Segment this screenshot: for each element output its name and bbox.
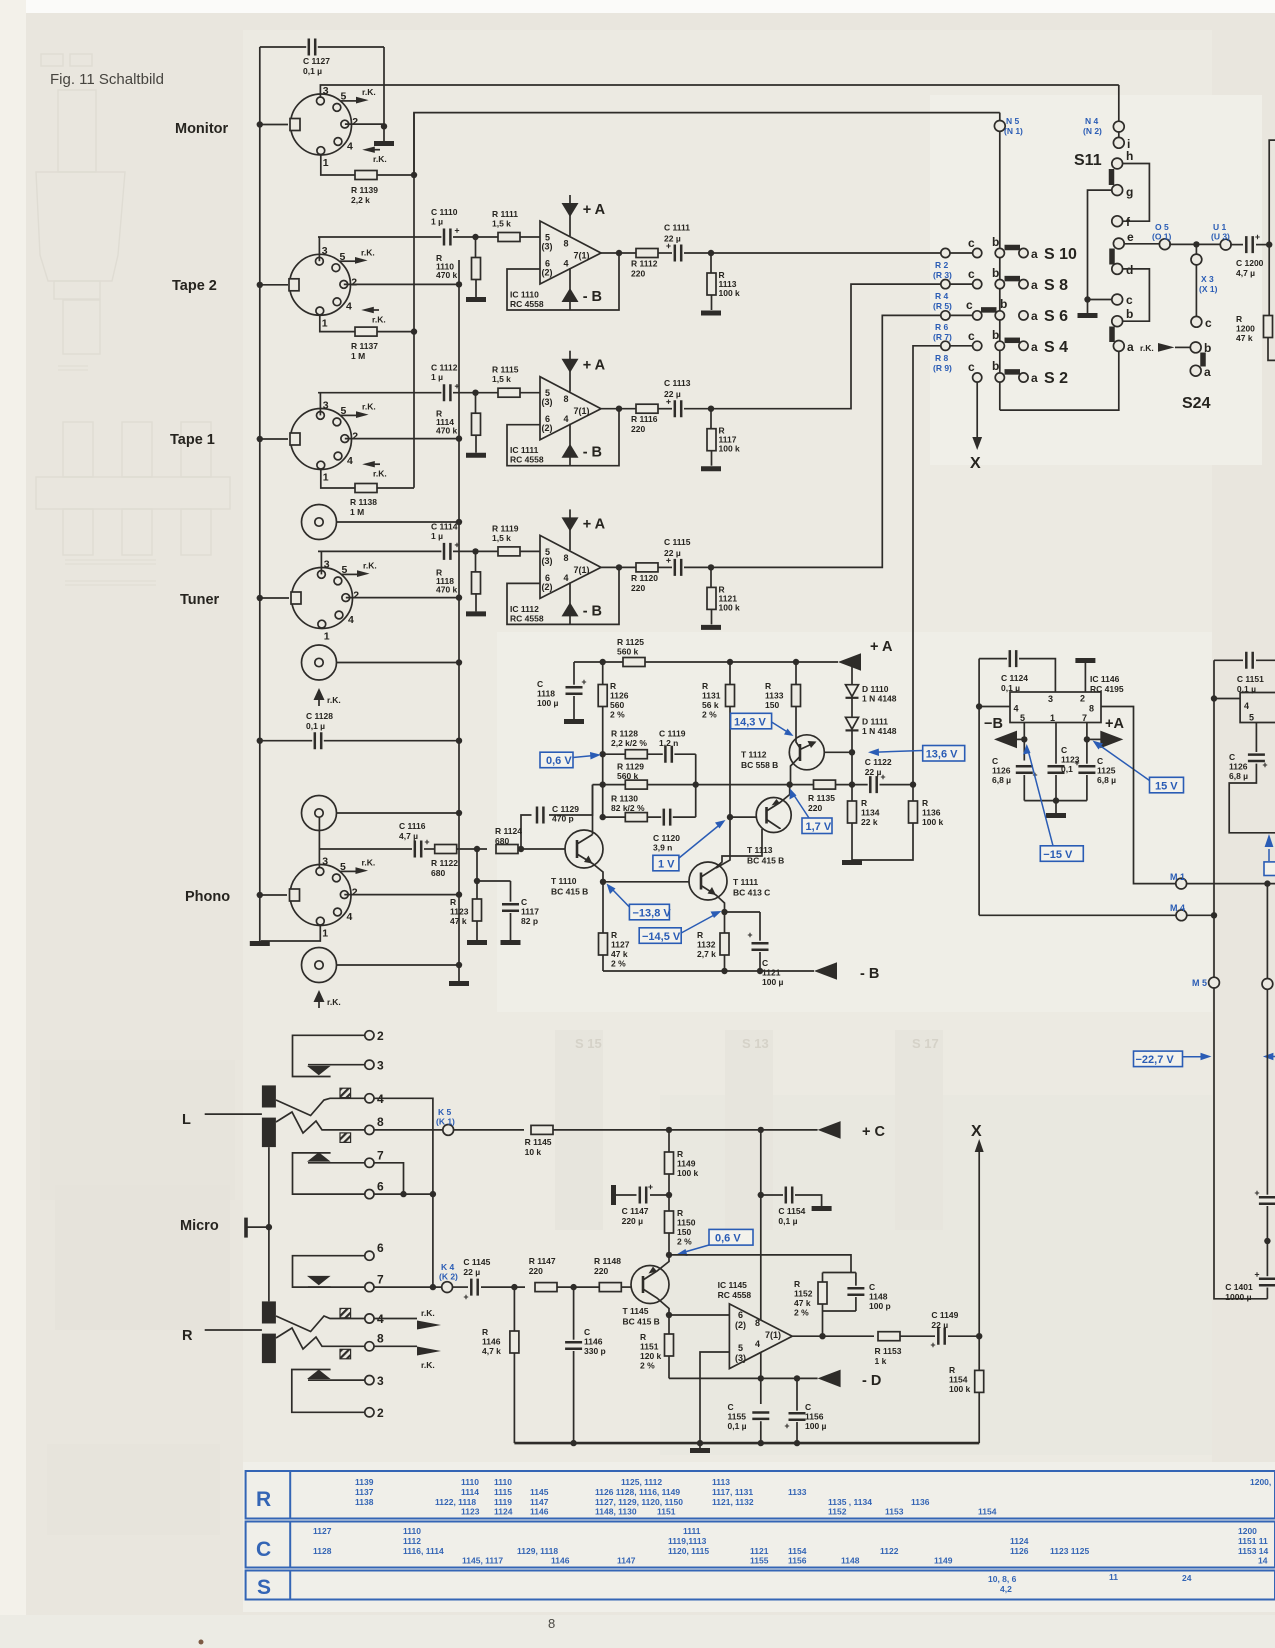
svg-text:- B: - B (583, 603, 602, 619)
-D supply line (669, 1377, 818, 1379)
jack L contact 7 with break (365, 1158, 374, 1167)
svg-text:6: 6 (377, 1180, 384, 1194)
svg-text:1156: 1156 (805, 1412, 824, 1422)
switch S24 contact a (1190, 365, 1201, 376)
op-amp IC1146 RC4195 box (1010, 692, 1101, 723)
svg-text:d: d (1126, 263, 1133, 277)
svg-text:C 1147: C 1147 (622, 1206, 649, 1216)
svg-text:1111: 1111 (683, 1526, 701, 1536)
capacitor C1151 partial circuit (1214, 659, 1243, 661)
svg-text:1 µ: 1 µ (431, 531, 443, 541)
svg-text:1119,1113: 1119,1113 (668, 1536, 707, 1546)
wire right bus top (383, 47, 385, 126)
svg-text:22 µ: 22 µ (664, 548, 681, 558)
svg-text:82 p: 82 p (521, 916, 538, 926)
svg-text:a: a (1031, 371, 1038, 385)
capacitor C1125 (1086, 723, 1088, 765)
svg-text:82 k/2 %: 82 k/2 % (611, 803, 645, 813)
svg-text:4: 4 (1244, 701, 1249, 711)
svg-text:3: 3 (377, 1374, 384, 1388)
svg-text:470 k: 470 k (436, 426, 458, 436)
mid rail vertical (760, 1130, 762, 1320)
resistor R1134 (851, 785, 853, 801)
svg-text:0,1: 0,1 (1061, 764, 1073, 774)
svg-text:1127: 1127 (611, 940, 630, 950)
svg-text:S11: S11 (1074, 152, 1102, 169)
svg-text:R 1122: R 1122 (431, 858, 458, 868)
svg-text:22 k: 22 k (861, 817, 878, 827)
svg-text:1126: 1126 (1229, 762, 1248, 772)
svg-text:1 µ: 1 µ (431, 372, 443, 382)
svg-text:R: R (182, 1328, 193, 1344)
svg-text:56 k: 56 k (702, 700, 719, 710)
svg-text:R: R (677, 1149, 683, 1159)
voltage 15 V (1150, 777, 1184, 793)
svg-text:100 µ: 100 µ (537, 698, 559, 708)
svg-text:a: a (1031, 247, 1038, 261)
svg-text:IC 1111: IC 1111 (510, 445, 539, 455)
switch S11 contact b (1112, 316, 1123, 327)
svg-text:1125, 1112: 1125, 1112 (621, 1477, 662, 1487)
svg-text:4,7 µ: 4,7 µ (399, 831, 418, 841)
jack R contact 7 with break (365, 1283, 374, 1292)
switch S11 contact c (1112, 294, 1123, 305)
switch S11 contact a (1113, 341, 1124, 352)
svg-text:1126 1128, 1116, 1149: 1126 1128, 1116, 1149 (595, 1487, 680, 1497)
svg-text:C: C (762, 958, 768, 968)
wire tape1 R1138 to bus (413, 113, 415, 488)
svg-text:g: g (1126, 185, 1133, 199)
op-amp stage Tape2 IC1110 (318, 195, 721, 313)
svg-text:r.K.: r.K. (421, 1360, 435, 1370)
svg-text:c: c (968, 329, 975, 343)
svg-text:R 1139: R 1139 (351, 185, 378, 195)
svg-text:22 µ: 22 µ (463, 1267, 480, 1277)
svg-text:b: b (1000, 297, 1007, 311)
transistor T1111 (603, 881, 690, 883)
capacitor C1123 (1055, 723, 1057, 765)
svg-text:8: 8 (377, 1332, 384, 1346)
svg-text:R 1145: R 1145 (525, 1137, 552, 1147)
switch S11 contact g (1112, 185, 1123, 196)
+C supply line (454, 1129, 524, 1131)
wire O5 to U1 (1169, 243, 1221, 245)
svg-text:Tuner: Tuner (180, 592, 220, 608)
svg-text:C: C (992, 756, 998, 766)
wire right edge from top (1269, 140, 1275, 315)
svg-text:(N 2): (N 2) (1083, 126, 1102, 136)
svg-text:4: 4 (564, 259, 569, 269)
svg-text:4: 4 (564, 414, 569, 424)
svg-text:(R 9): (R 9) (933, 363, 952, 373)
svg-text:1146: 1146 (551, 1556, 570, 1566)
wire h to f (1122, 164, 1149, 222)
svg-text:2,2 k/2 %: 2,2 k/2 % (611, 738, 647, 748)
op-amp IC1145 (729, 1304, 792, 1369)
resistor R1150 (665, 1211, 674, 1233)
voltage 1,7 V (802, 818, 832, 834)
svg-text:S 13: S 13 (742, 1036, 769, 1051)
svg-text:24: 24 (1182, 1573, 1192, 1583)
switch S24 contact c (1191, 316, 1202, 327)
svg-text:1149: 1149 (934, 1556, 953, 1566)
svg-text:S 4: S 4 (1044, 339, 1068, 356)
svg-text:1 N 4148: 1 N 4148 (862, 694, 897, 704)
svg-text:1127, 1129, 1120, 1150: 1127, 1129, 1120, 1150 (595, 1497, 683, 1507)
svg-text:1125: 1125 (1097, 766, 1116, 776)
connector Tuner DIN (260, 597, 289, 599)
svg-text:C: C (256, 1538, 271, 1561)
svg-text:8: 8 (564, 239, 569, 249)
svg-text:(2): (2) (542, 268, 553, 278)
blue arrow up right edge (1268, 849, 1270, 861)
svg-text:R 1128: R 1128 (611, 729, 638, 739)
svg-text:47 k: 47 k (794, 1298, 811, 1308)
svg-text:R 1116: R 1116 (631, 414, 658, 424)
jack L tip spring to 4 (276, 1098, 365, 1115)
svg-text:4,7 k: 4,7 k (482, 1346, 501, 1356)
svg-text:(N 1): (N 1) (1004, 126, 1023, 136)
resistor R1127 (602, 882, 604, 933)
jack R contact 6 (365, 1251, 374, 1260)
svg-text:22 µ: 22 µ (865, 767, 882, 777)
svg-text:S 15: S 15 (575, 1036, 602, 1051)
phono input: capacitor C1116 (319, 848, 412, 850)
svg-text:r.K.: r.K. (327, 997, 341, 1007)
svg-text:R: R (1236, 314, 1242, 324)
svg-text:R 1120: R 1120 (631, 573, 658, 583)
svg-text:0,1 µ: 0,1 µ (778, 1216, 797, 1226)
svg-text:S 17: S 17 (912, 1036, 939, 1051)
jack L contact 2 (365, 1031, 374, 1040)
svg-text:100 k: 100 k (719, 444, 741, 454)
svg-text:1122: 1122 (880, 1546, 899, 1556)
svg-text:1110: 1110 (461, 1477, 479, 1487)
svg-text:N 5: N 5 (1006, 116, 1020, 126)
schematic light panel (243, 30, 1212, 1462)
svg-text:(R 3): (R 3) (933, 270, 952, 280)
svg-text:T 1110: T 1110 (551, 876, 577, 886)
wire collector to feedback (669, 1255, 851, 1273)
svg-text:C 1127: C 1127 (303, 56, 330, 66)
svg-text:1133: 1133 (765, 691, 784, 701)
svg-text:3: 3 (377, 1059, 384, 1073)
svg-text:1147: 1147 (530, 1497, 549, 1507)
svg-text:(U 3): (U 3) (1211, 232, 1230, 242)
svg-text:0,1 µ: 0,1 µ (303, 66, 322, 76)
r.K. arrow below RCA (314, 688, 325, 700)
svg-text:1137: 1137 (355, 1487, 374, 1497)
sleeve bus between jacks (268, 1147, 270, 1301)
capacitor C1156 (796, 1378, 798, 1411)
svg-text:220: 220 (631, 424, 645, 434)
svg-text:C 1124: C 1124 (1001, 673, 1028, 683)
svg-text:1145, 1117: 1145, 1117 (462, 1556, 503, 1566)
svg-text:22 µ: 22 µ (931, 1320, 948, 1330)
svg-text:7: 7 (377, 1273, 384, 1287)
svg-text:C 1200: C 1200 (1236, 258, 1264, 268)
resistor R1149 (668, 1130, 670, 1152)
voltage 1 V (653, 855, 679, 871)
svg-text:T 1112: T 1112 (741, 750, 767, 760)
svg-text:220: 220 (808, 803, 822, 813)
svg-text:R: R (861, 798, 867, 808)
svg-text:1152: 1152 (828, 1507, 847, 1517)
svg-text:S: S (257, 1576, 271, 1599)
svg-text:22 µ: 22 µ (664, 234, 681, 244)
svg-text:R 8: R 8 (935, 353, 949, 363)
svg-text:C 1122: C 1122 (865, 757, 892, 767)
svg-text:1116, 1114: 1116, 1114 (403, 1546, 444, 1556)
svg-text:6,8 µ: 6,8 µ (992, 775, 1011, 785)
svg-text:r.K.: r.K. (1140, 343, 1154, 353)
svg-text:4: 4 (1014, 704, 1019, 714)
svg-text:C 1116: C 1116 (399, 821, 426, 831)
resistor R1131 on ladder to T1113 base (727, 659, 733, 665)
svg-text:R 1124: R 1124 (495, 826, 522, 836)
svg-text:1200: 1200 (1238, 1526, 1257, 1536)
svg-text:R 1125: R 1125 (617, 637, 644, 647)
svg-text:C: C (537, 679, 543, 689)
svg-text:RC 4558: RC 4558 (510, 613, 544, 623)
switch bank S8 (941, 266, 1068, 294)
svg-text:b: b (1126, 307, 1133, 321)
svg-text:c: c (1205, 316, 1212, 330)
svg-text:8: 8 (564, 394, 569, 404)
svg-text:+A: +A (1105, 716, 1124, 732)
svg-text:1126: 1126 (992, 766, 1011, 776)
svg-text:1154: 1154 (788, 1546, 807, 1556)
pin4 lead (979, 706, 1010, 708)
svg-text:K 4: K 4 (441, 1262, 455, 1272)
svg-text:R 1129: R 1129 (617, 762, 644, 772)
svg-text:Micro: Micro (180, 1218, 219, 1234)
switch bank S10 (941, 235, 1077, 263)
svg-text:+ C: + C (862, 1124, 885, 1140)
jack L contact 3 with break (365, 1060, 374, 1069)
svg-text:a: a (1031, 309, 1038, 323)
svg-text:1118: 1118 (537, 689, 555, 699)
svg-text:1114: 1114 (461, 1487, 479, 1497)
svg-text:2: 2 (377, 1029, 384, 1043)
op-amp stage Tape1 IC1111 (318, 351, 721, 469)
svg-text:C 1129: C 1129 (552, 804, 579, 814)
svg-text:1200,: 1200, (1250, 1477, 1271, 1487)
svg-text:560 k: 560 k (617, 771, 639, 781)
capacitor C1401 pair (1259, 1195, 1275, 1207)
svg-text:RC 4195: RC 4195 (1090, 684, 1124, 694)
svg-text:b: b (992, 359, 999, 373)
svg-text:1123: 1123 (450, 907, 469, 917)
resistor R1129 row / main feedback row (593, 784, 869, 786)
wire phono input from RCA (318, 818, 320, 872)
capacitor C1154 (758, 1192, 764, 1198)
svg-text:47 k: 47 k (450, 916, 467, 926)
node after R1122 (457, 848, 487, 850)
node K5 (374, 1129, 443, 1131)
diode D1110 (849, 659, 855, 665)
svg-text:1124: 1124 (494, 1507, 513, 1517)
svg-text:IC 1112: IC 1112 (510, 604, 539, 614)
svg-text:C 1111: C 1111 (664, 223, 690, 233)
svg-text:1120, 1115: 1120, 1115 (668, 1546, 709, 1556)
svg-text:Tape 2: Tape 2 (172, 278, 217, 294)
svg-text:1129, 1118: 1129, 1118 (517, 1546, 558, 1556)
svg-text:1149: 1149 (677, 1159, 696, 1169)
svg-text:a: a (1204, 365, 1211, 379)
svg-text:S 8: S 8 (1044, 277, 1068, 294)
svg-text:7: 7 (1082, 713, 1087, 723)
svg-text:X: X (971, 1123, 982, 1140)
svg-text:1128: 1128 (313, 1546, 332, 1556)
capacitor C1146 (570, 1284, 576, 1290)
svg-text:1123 1125: 1123 1125 (1050, 1546, 1090, 1556)
svg-text:M 5: M 5 (1192, 978, 1207, 988)
svg-text:7(1): 7(1) (574, 565, 590, 575)
svg-text:1 V: 1 V (658, 858, 675, 870)
svg-text:C: C (1061, 745, 1067, 755)
svg-text:6,8 µ: 6,8 µ (1097, 775, 1116, 785)
svg-text:X 3: X 3 (1201, 274, 1214, 284)
svg-text:100 p: 100 p (869, 1301, 891, 1311)
svg-text:100 µ: 100 µ (805, 1421, 827, 1431)
svg-text:e: e (1127, 230, 1134, 244)
svg-text:a: a (1031, 340, 1038, 354)
svg-text:1135 , 1134: 1135 , 1134 (828, 1497, 872, 1507)
svg-text:2,2 k: 2,2 k (351, 195, 370, 205)
svg-text:1152: 1152 (794, 1289, 813, 1299)
svg-text:R: R (702, 681, 708, 691)
jack L sleeve (262, 1085, 276, 1107)
svg-text:1,7 V: 1,7 V (806, 821, 832, 833)
switch S11 contact d (1112, 264, 1123, 275)
connector RCA phono-top (302, 796, 337, 831)
resistor R1153 (878, 1332, 900, 1341)
svg-text:5: 5 (738, 1343, 743, 1353)
pin5 wire to ground rail (700, 1352, 729, 1443)
svg-text:1127: 1127 (313, 1526, 332, 1536)
svg-text:c: c (968, 267, 975, 281)
wire tuner out to S6 (711, 315, 941, 567)
r.K. arrow below RCA bottom (314, 990, 325, 1002)
svg-text:560: 560 (610, 700, 624, 710)
svg-text:R 1112: R 1112 (631, 259, 658, 269)
svg-text:1126: 1126 (1010, 1546, 1029, 1556)
svg-text:1 M: 1 M (350, 507, 364, 517)
svg-text:1146: 1146 (584, 1337, 603, 1347)
svg-text:R: R (482, 1327, 488, 1337)
svg-text:11: 11 (1109, 1572, 1118, 1582)
capacitor C1122 (868, 776, 880, 793)
svg-text:R 4: R 4 (935, 291, 949, 301)
node M1 (1101, 707, 1176, 884)
svg-text:R 1130: R 1130 (611, 794, 638, 804)
svg-text:0,6 V: 0,6 V (546, 755, 572, 767)
svg-text:1126: 1126 (610, 691, 629, 701)
op-amp stage Tuner IC1112 (318, 509, 721, 627)
transistor T1113 (730, 816, 757, 818)
svg-text:1123: 1123 (461, 1507, 480, 1517)
svg-text:220: 220 (594, 1266, 608, 1276)
transistor T1112 (789, 735, 824, 770)
jack R contact 8 r.K. arrow (374, 1345, 417, 1347)
voltage 0,6 V (540, 752, 573, 768)
svg-text:(2): (2) (542, 582, 553, 592)
svg-text:1000 µ: 1000 µ (1225, 1292, 1251, 1302)
svg-text:3: 3 (1048, 694, 1053, 704)
svg-text:6: 6 (377, 1241, 384, 1255)
resistor R1123 + capacitor C1117 (477, 849, 511, 881)
svg-text:470 p: 470 p (552, 814, 574, 824)
svg-text:14,3 V: 14,3 V (734, 716, 766, 728)
resistor R1133 ladder (793, 659, 799, 665)
svg-text:4: 4 (564, 573, 569, 583)
connector RCA phono-bottom (302, 948, 337, 983)
svg-text:220 µ: 220 µ (622, 1216, 644, 1226)
svg-text:R 1153: R 1153 (875, 1346, 902, 1356)
svg-text:S24: S24 (1182, 395, 1211, 412)
wire tape1 out to S8 (711, 284, 941, 409)
svg-text:M 4: M 4 (1170, 903, 1185, 913)
svg-text:1: 1 (1050, 713, 1055, 723)
svg-text:R: R (949, 1365, 955, 1375)
svg-text:4,7 µ: 4,7 µ (1236, 268, 1255, 278)
svg-text:T 1113: T 1113 (747, 845, 773, 855)
wire contact 4 down (374, 1098, 433, 1287)
svg-text:R 1147: R 1147 (529, 1256, 556, 1266)
capacitor C1121 (725, 912, 761, 941)
svg-text:(2): (2) (735, 1320, 746, 1330)
svg-text:RC 4558: RC 4558 (510, 299, 544, 309)
svg-text:R: R (697, 930, 703, 940)
+A arrow (1084, 736, 1090, 742)
node R1139 junction (411, 172, 417, 178)
connector Phono DIN (260, 894, 287, 896)
svg-text:R 1148: R 1148 (594, 1256, 621, 1266)
svg-text:1121, 1132: 1121, 1132 (712, 1497, 754, 1507)
svg-text:−13,8 V: −13,8 V (633, 907, 672, 919)
svg-text:6,8 µ: 6,8 µ (1229, 771, 1248, 781)
wire tape2 out to S10 (711, 252, 941, 254)
svg-text:R 1135: R 1135 (808, 793, 835, 803)
svg-text:1121: 1121 (762, 968, 781, 978)
svg-text:RC 4558: RC 4558 (718, 1290, 752, 1300)
svg-text:R 6: R 6 (935, 322, 949, 332)
svg-text:(3): (3) (542, 556, 553, 566)
svg-text:100 k: 100 k (922, 817, 944, 827)
wire phono out to S4 (913, 346, 941, 783)
svg-text:680: 680 (495, 836, 509, 846)
svg-text:R: R (610, 681, 616, 691)
svg-text:220: 220 (631, 269, 645, 279)
svg-text:1154: 1154 (978, 1507, 997, 1517)
wire contact 7 down (374, 1163, 404, 1194)
switch S11 contact e (1113, 238, 1124, 249)
jack L ring spring to 8 (276, 1112, 365, 1133)
svg-text:−B: −B (984, 716, 1003, 732)
right column with M circle (1266, 884, 1268, 979)
svg-text:C 1112: C 1112 (431, 363, 458, 373)
svg-text:100 k: 100 k (677, 1168, 699, 1178)
svg-text:4,2: 4,2 (1000, 1584, 1012, 1594)
svg-text:120 k: 120 k (640, 1351, 662, 1361)
svg-text:1112: 1112 (403, 1536, 421, 1546)
resistor R1154 (975, 1370, 984, 1392)
svg-text:1134: 1134 (861, 808, 880, 818)
svg-text:22 µ: 22 µ (664, 389, 681, 399)
svg-text:1124: 1124 (1010, 1536, 1029, 1546)
capacitor C1148 (855, 1273, 857, 1287)
